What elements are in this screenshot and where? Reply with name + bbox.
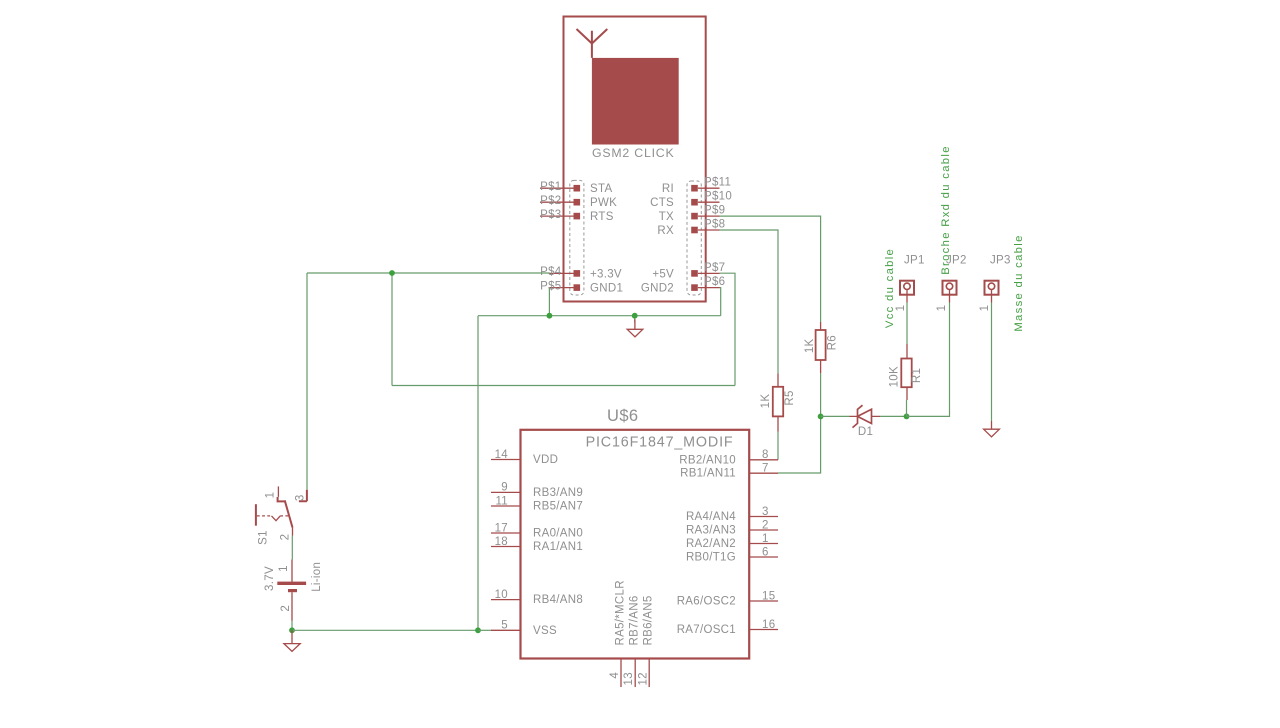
resistor R5 1K bbox=[760, 374, 796, 432]
wire JP3 to ground bbox=[991, 303, 993, 422]
junction battery ground node bbox=[289, 627, 295, 633]
svg-text:RB1/AN11: RB1/AN11 bbox=[680, 468, 736, 480]
wire bottom horizontal of supply loop bbox=[392, 385, 735, 387]
svg-text:RA7/OSC1: RA7/OSC1 bbox=[677, 624, 736, 636]
pin 12 RB6/AN5 bbox=[637, 595, 654, 687]
wire junction to VSS pin bbox=[478, 629, 492, 631]
pin 8 RB2/AN10 bbox=[679, 449, 778, 466]
pin 4 RA5/*MCLR bbox=[609, 580, 627, 687]
svg-text:STA: STA bbox=[590, 183, 612, 195]
resistor R1 10K bbox=[889, 344, 923, 400]
pin 18 RA1/AN1 bbox=[491, 536, 583, 553]
svg-text:4: 4 bbox=[609, 672, 621, 679]
pin P$5 GND1 bbox=[540, 280, 623, 294]
svg-text:1: 1 bbox=[278, 565, 290, 572]
svg-text:3: 3 bbox=[295, 494, 307, 501]
svg-text:1K: 1K bbox=[804, 338, 816, 353]
wire GND2 pin down bbox=[720, 288, 721, 316]
wire left column down to switch bbox=[306, 273, 308, 490]
svg-text:18: 18 bbox=[495, 536, 508, 548]
svg-text:12: 12 bbox=[637, 672, 649, 685]
ground battery bbox=[284, 630, 300, 651]
svg-text:8: 8 bbox=[762, 449, 769, 461]
svg-text:RX: RX bbox=[657, 225, 674, 237]
wire switch to battery bbox=[291, 536, 293, 560]
svg-text:P$2: P$2 bbox=[540, 195, 561, 207]
svg-text:RB3/AN9: RB3/AN9 bbox=[533, 487, 583, 499]
svg-text:16: 16 bbox=[762, 619, 775, 631]
connector JP2 bbox=[936, 255, 967, 312]
svg-text:JP1: JP1 bbox=[904, 255, 925, 267]
pin 6 RB0/T1G bbox=[686, 546, 778, 563]
wire ground bus horizontal bbox=[478, 315, 721, 317]
svg-text:1: 1 bbox=[936, 305, 948, 312]
svg-text:PWK: PWK bbox=[590, 197, 617, 209]
svg-text:RA2/AN2: RA2/AN2 bbox=[686, 538, 736, 550]
antenna symbol bbox=[577, 29, 679, 145]
svg-text:6: 6 bbox=[762, 546, 769, 558]
wire battery to ground junction bbox=[291, 621, 293, 630]
svg-text:13: 13 bbox=[623, 672, 635, 685]
pin 1 RA2/AN2 bbox=[686, 533, 778, 550]
wire +3.3V pin to junction bbox=[392, 272, 550, 274]
svg-text:+5V: +5V bbox=[652, 268, 674, 280]
svg-text:U$6: U$6 bbox=[607, 407, 638, 425]
pin P$6 GND2 bbox=[641, 276, 726, 295]
pin 3 RA4/AN4 bbox=[686, 506, 778, 523]
svg-text:RB5/AN7: RB5/AN7 bbox=[533, 501, 583, 513]
pin P$10 CTS bbox=[650, 191, 732, 210]
svg-text:RB6/AN5: RB6/AN5 bbox=[643, 595, 655, 645]
resistor R6 1K bbox=[804, 322, 839, 373]
pin 5 VSS bbox=[491, 620, 557, 637]
pin 13 RB7/AN6 bbox=[623, 595, 641, 687]
svg-text:Li-ion: Li-ion bbox=[311, 562, 323, 592]
wire R1 to JP1 bbox=[906, 303, 908, 345]
svg-text:JP3: JP3 bbox=[990, 255, 1011, 267]
svg-text:11: 11 bbox=[495, 495, 508, 507]
svg-text:10: 10 bbox=[495, 589, 508, 601]
pin 9 RB3/AN9 bbox=[491, 482, 583, 499]
svg-text:P$7: P$7 bbox=[704, 262, 725, 274]
svg-text:RB4/AN8: RB4/AN8 bbox=[533, 594, 583, 606]
svg-text:RTS: RTS bbox=[590, 211, 614, 223]
svg-text:P$4: P$4 bbox=[540, 266, 562, 278]
svg-text:P$10: P$10 bbox=[704, 191, 732, 203]
svg-text:R1: R1 bbox=[911, 368, 923, 383]
pin 2 RA3/AN3 bbox=[686, 519, 778, 536]
switch S1 bbox=[256, 486, 307, 544]
svg-text:Vcc du cable: Vcc du cable bbox=[884, 248, 896, 328]
svg-text:VSS: VSS bbox=[533, 625, 557, 637]
svg-text:3: 3 bbox=[762, 506, 769, 518]
svg-text:GSM2 CLICK: GSM2 CLICK bbox=[592, 146, 674, 160]
svg-text:RI: RI bbox=[662, 183, 674, 195]
module GSM2 CLICK outline bbox=[564, 17, 706, 302]
wire junction B to JP2 bbox=[907, 303, 950, 417]
battery G1 Li-ion 3.7V bbox=[264, 560, 323, 621]
wire junction A to D1 bbox=[821, 415, 850, 417]
svg-text:9: 9 bbox=[501, 482, 508, 494]
junction B node bbox=[904, 414, 910, 420]
pin 7 RB1/AN11 bbox=[680, 463, 778, 480]
svg-text:1K: 1K bbox=[760, 394, 772, 409]
wire up right side of supply loop bbox=[720, 273, 736, 385]
pin 15 RA6/OSC2 bbox=[677, 590, 778, 607]
wire TX to R6 bbox=[720, 216, 821, 322]
pin P$11 RI bbox=[662, 177, 731, 196]
svg-text:10K: 10K bbox=[889, 366, 901, 387]
wire R6 to junction A bbox=[820, 373, 822, 416]
svg-text:R6: R6 bbox=[827, 335, 839, 350]
svg-text:R5: R5 bbox=[784, 390, 796, 405]
svg-text:RA5/*MCLR: RA5/*MCLR bbox=[615, 580, 627, 645]
wire junction A down to pin 7 bbox=[778, 416, 821, 473]
wire GND1 pin down to bus bbox=[548, 288, 550, 316]
pin 10 RB4/AN8 bbox=[491, 589, 583, 606]
wire ground bus down left bbox=[477, 316, 479, 631]
svg-text:GND2: GND2 bbox=[641, 283, 674, 295]
pin P$9 TX bbox=[659, 205, 726, 224]
svg-text:VDD: VDD bbox=[533, 454, 558, 466]
pin P$2 PWK bbox=[540, 195, 617, 209]
svg-text:CTS: CTS bbox=[650, 197, 674, 209]
connector JP1 bbox=[895, 255, 925, 312]
wire RX to R5 bbox=[720, 230, 779, 374]
svg-text:+3.3V: +3.3V bbox=[590, 268, 622, 280]
pin P$7 +5V bbox=[652, 262, 725, 281]
pin P$8 RX bbox=[657, 218, 725, 237]
svg-text:P$5: P$5 bbox=[540, 280, 561, 292]
svg-text:2: 2 bbox=[280, 534, 292, 541]
svg-text:GND1: GND1 bbox=[590, 283, 623, 295]
diode D1 zener bbox=[850, 405, 881, 438]
svg-text:PIC16F1847_MODIF: PIC16F1847_MODIF bbox=[586, 434, 734, 450]
wire R5 to pin 8 bbox=[777, 432, 779, 460]
svg-text:P$11: P$11 bbox=[704, 177, 731, 189]
svg-text:14: 14 bbox=[495, 449, 509, 461]
svg-text:RB2/AN10: RB2/AN10 bbox=[679, 454, 736, 466]
junction VSS column node bbox=[475, 627, 481, 633]
wire D1 to junction B bbox=[880, 415, 907, 417]
pin P$3 RTS bbox=[540, 209, 614, 223]
svg-text:1: 1 bbox=[265, 492, 277, 499]
svg-text:P$8: P$8 bbox=[704, 218, 725, 230]
IC U$6 PIC16F1847_MODIF body bbox=[521, 430, 750, 659]
ground JP3 bbox=[984, 421, 1000, 437]
wire junction down bbox=[391, 273, 393, 386]
junction ground symbol node bbox=[632, 313, 638, 319]
svg-text:D1: D1 bbox=[858, 426, 873, 438]
left header dashed box bbox=[570, 180, 584, 295]
svg-text:RA4/AN4: RA4/AN4 bbox=[686, 511, 736, 523]
junction A node bbox=[818, 414, 824, 420]
pin P$1 STA bbox=[540, 181, 612, 195]
svg-text:Masse du cable: Masse du cable bbox=[1013, 234, 1025, 331]
pin 11 RB5/AN7 bbox=[491, 495, 583, 512]
wire junction B up to R1 bbox=[906, 400, 908, 416]
svg-text:RA0/AN0: RA0/AN0 bbox=[533, 528, 583, 540]
svg-text:3.7V: 3.7V bbox=[264, 566, 276, 591]
junction GND1 node bbox=[547, 313, 553, 319]
junction +3.3V node bbox=[389, 270, 395, 276]
svg-text:17: 17 bbox=[495, 522, 508, 534]
svg-text:RA1/AN1: RA1/AN1 bbox=[533, 541, 583, 553]
wire junction to left column bbox=[307, 272, 392, 274]
svg-text:RB0/T1G: RB0/T1G bbox=[686, 552, 736, 564]
svg-text:P$9: P$9 bbox=[704, 205, 725, 217]
svg-text:P$1: P$1 bbox=[540, 181, 561, 193]
svg-text:5: 5 bbox=[501, 620, 508, 632]
svg-text:Broche Rxd du cable: Broche Rxd du cable bbox=[940, 145, 952, 275]
wire ground bus to VSS bbox=[292, 629, 478, 631]
svg-text:S1: S1 bbox=[258, 530, 270, 545]
pin P$4 +3.3V bbox=[540, 266, 622, 280]
wire ground symbol drop bbox=[634, 316, 636, 323]
svg-text:1: 1 bbox=[895, 305, 907, 312]
svg-text:1: 1 bbox=[762, 533, 769, 545]
svg-text:1: 1 bbox=[979, 305, 991, 312]
svg-text:2: 2 bbox=[762, 519, 769, 531]
svg-text:RA6/OSC2: RA6/OSC2 bbox=[677, 596, 736, 608]
svg-text:P$3: P$3 bbox=[540, 209, 561, 221]
right header dashed box bbox=[687, 181, 701, 295]
connector JP3 bbox=[979, 255, 1011, 312]
pin 17 RA0/AN0 bbox=[491, 522, 583, 539]
ground module bbox=[627, 319, 643, 337]
svg-text:RA3/AN3: RA3/AN3 bbox=[686, 525, 736, 537]
svg-text:P$6: P$6 bbox=[704, 276, 725, 288]
svg-text:RB7/AN6: RB7/AN6 bbox=[629, 595, 641, 645]
svg-text:15: 15 bbox=[762, 590, 775, 602]
svg-text:TX: TX bbox=[659, 211, 674, 223]
svg-text:2: 2 bbox=[280, 605, 292, 612]
pin 16 RA7/OSC1 bbox=[677, 619, 778, 636]
pin 14 VDD bbox=[491, 449, 558, 466]
svg-text:7: 7 bbox=[762, 463, 769, 475]
